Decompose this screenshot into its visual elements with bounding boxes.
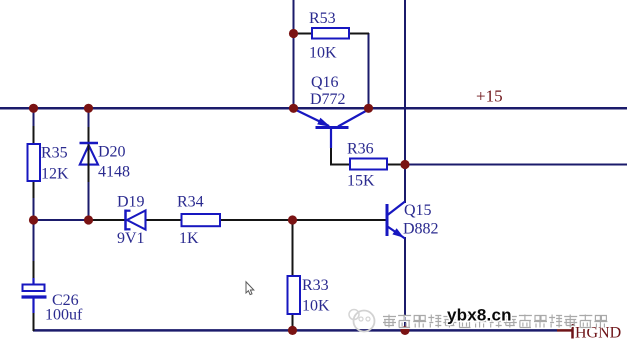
svg-text:R53: R53 [309,10,336,27]
svg-text:12K: 12K [41,166,69,183]
svg-text:10K: 10K [309,45,337,62]
svg-text:R34: R34 [177,194,204,211]
svg-text:1K: 1K [179,230,199,247]
svg-text:100uf: 100uf [45,307,83,324]
svg-text:4148: 4148 [98,164,130,181]
svg-text:D20: D20 [98,144,126,161]
svg-text:+15: +15 [476,87,503,106]
svg-text:R36: R36 [347,141,374,158]
svg-text:ybx8.cn: ybx8.cn [447,306,512,325]
svg-text:D19: D19 [117,194,145,211]
svg-text:9V1: 9V1 [117,230,145,247]
svg-text:10K: 10K [302,298,330,315]
svg-text:15K: 15K [347,173,375,190]
svg-text:R35: R35 [41,145,68,162]
svg-text:D772: D772 [310,91,346,108]
svg-text:D882: D882 [403,221,439,238]
svg-text:Q16: Q16 [311,74,339,91]
svg-text:R33: R33 [302,277,329,294]
svg-text:Q15: Q15 [404,202,432,219]
